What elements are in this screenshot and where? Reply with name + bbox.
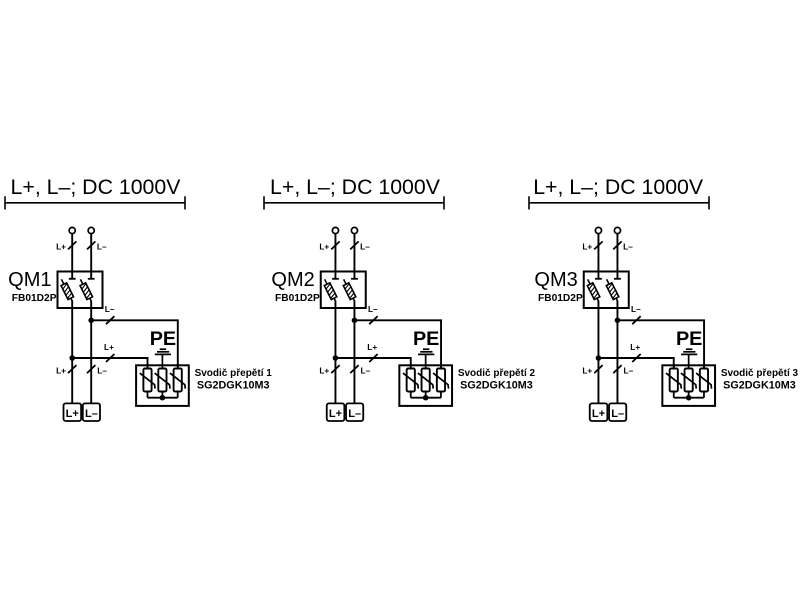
wire L&#8722; main drop circuit 2 bbox=[353, 301, 355, 404]
terminal circle L&#8722; input circuit 3 bbox=[614, 227, 620, 233]
disconnect slash L+ branch circuit 1 bbox=[106, 354, 114, 362]
wire L&#8722; branch circuit 1 bbox=[91, 320, 178, 369]
surge arrester box circuit 1 bbox=[136, 365, 189, 406]
fuse-switch QM3 pole 2 bbox=[606, 279, 621, 301]
disconnect slash L&#8722; output circuit 3 bbox=[613, 365, 621, 373]
node L&#8722; junction circuit 2 bbox=[352, 318, 358, 324]
varistor 1 circuit 1 bbox=[140, 369, 155, 398]
terminal circle L&#8722; input circuit 2 bbox=[351, 227, 357, 233]
svg-text:FB01D2P: FB01D2P bbox=[12, 293, 57, 304]
svg-text:QM1: QM1 bbox=[8, 269, 51, 291]
terminal box L+ output circuit 3 bbox=[590, 403, 608, 421]
wire ground bus circuit 1 bbox=[148, 397, 178, 399]
wire L+ input drop circuit 1 bbox=[71, 234, 73, 279]
svg-text:L+: L+ bbox=[104, 342, 114, 352]
ground PE circuit 3 bbox=[681, 349, 697, 369]
bus bracket circuit 1 bbox=[5, 196, 185, 209]
wire L+ branch circuit 2 bbox=[335, 358, 410, 369]
svg-text:L+: L+ bbox=[66, 408, 79, 420]
disconnect slash L&#8722; output circuit 2 bbox=[350, 365, 358, 373]
node ground bus circuit 3 bbox=[686, 395, 692, 401]
varistor 3 circuit 1 bbox=[170, 369, 185, 398]
bus bracket circuit 2 bbox=[264, 196, 444, 209]
svg-text:L+: L+ bbox=[367, 342, 377, 352]
disconnect slash L&#8722; branch circuit 2 bbox=[369, 316, 377, 324]
wire L&#8722; input drop circuit 2 bbox=[353, 234, 355, 279]
wire ground bus circuit 2 bbox=[411, 397, 441, 399]
varistor 1 circuit 3 bbox=[666, 369, 681, 398]
svg-text:PE: PE bbox=[676, 328, 702, 350]
terminal circle L&#8722; input circuit 1 bbox=[88, 227, 94, 233]
terminal box L&#8722; output circuit 1 bbox=[83, 403, 100, 421]
fuse-switch QM3 pole 1 bbox=[587, 279, 602, 301]
svg-text:SG2DGK10M3: SG2DGK10M3 bbox=[723, 379, 796, 391]
svg-text:L+: L+ bbox=[582, 242, 592, 252]
svg-text:L–: L– bbox=[97, 365, 107, 375]
switch-fuse box QM2 bbox=[321, 272, 366, 309]
surge arrester box circuit 2 bbox=[399, 365, 452, 406]
wire L+ input drop circuit 3 bbox=[597, 234, 599, 279]
svg-text:L+: L+ bbox=[56, 242, 66, 252]
svg-text:PE: PE bbox=[413, 328, 439, 350]
disconnect slash L&#8722; branch circuit 3 bbox=[632, 316, 640, 324]
ground PE circuit 1 bbox=[155, 349, 171, 369]
svg-text:L+, L–; DC 1000V: L+, L–; DC 1000V bbox=[11, 175, 182, 199]
wire L&#8722; main drop circuit 3 bbox=[616, 301, 618, 404]
disconnect slash L&#8722; output circuit 1 bbox=[87, 365, 95, 373]
varistor 1 circuit 2 bbox=[403, 369, 418, 398]
disconnect slash L+ branch circuit 2 bbox=[369, 354, 377, 362]
svg-text:L–: L– bbox=[360, 242, 370, 252]
node ground bus circuit 1 bbox=[160, 395, 166, 401]
terminal circle L+ input circuit 3 bbox=[595, 227, 601, 233]
terminal box L+ output circuit 2 bbox=[327, 403, 345, 421]
disconnect slash L+ input circuit 3 bbox=[594, 241, 602, 249]
svg-text:L–: L– bbox=[85, 408, 98, 420]
wire L+ input drop circuit 2 bbox=[334, 234, 336, 279]
svg-text:L–: L– bbox=[105, 304, 115, 314]
disconnect slash L+ output circuit 2 bbox=[331, 365, 339, 373]
svg-text:L+: L+ bbox=[592, 408, 605, 420]
wire L&#8722; branch circuit 2 bbox=[354, 320, 441, 369]
svg-text:L–: L– bbox=[361, 365, 371, 375]
svg-text:Svodič přepětí 1: Svodič přepětí 1 bbox=[195, 368, 273, 379]
disconnect slash L+ branch circuit 3 bbox=[632, 354, 640, 362]
terminal box L&#8722; output circuit 3 bbox=[609, 403, 626, 421]
node L+ junction circuit 1 bbox=[69, 355, 75, 361]
varistor 2 circuit 1 bbox=[155, 369, 170, 398]
node L+ junction circuit 2 bbox=[333, 355, 339, 361]
svg-text:SG2DGK10M3: SG2DGK10M3 bbox=[197, 379, 270, 391]
svg-text:L–: L– bbox=[97, 242, 107, 252]
fuse-switch QM2 pole 2 bbox=[343, 279, 358, 301]
fuse-switch QM2 pole 1 bbox=[324, 279, 339, 301]
svg-text:Svodič přepětí 3: Svodič přepětí 3 bbox=[721, 368, 799, 379]
disconnect slash L&#8722; input circuit 2 bbox=[350, 241, 358, 249]
ground PE circuit 2 bbox=[418, 349, 434, 369]
svg-text:L+: L+ bbox=[630, 342, 640, 352]
svg-text:QM3: QM3 bbox=[534, 269, 577, 291]
terminal box L+ output circuit 1 bbox=[64, 403, 82, 421]
svg-text:L–: L– bbox=[631, 304, 641, 314]
varistor top stub 1 circuit 2 bbox=[410, 364, 412, 369]
svg-text:L–: L– bbox=[611, 408, 624, 420]
varistor top stub 3 circuit 1 bbox=[177, 364, 179, 369]
wire L&#8722; input drop circuit 3 bbox=[616, 234, 618, 279]
disconnect slash L+ input circuit 2 bbox=[331, 241, 339, 249]
svg-text:Svodič přepětí 2: Svodič přepětí 2 bbox=[458, 368, 536, 379]
wire L+ branch circuit 1 bbox=[72, 358, 147, 369]
fuse-switch QM1 pole 2 bbox=[80, 279, 95, 301]
svg-text:QM2: QM2 bbox=[271, 269, 314, 291]
surge arrester box circuit 3 bbox=[662, 365, 715, 406]
varistor 3 circuit 2 bbox=[433, 369, 448, 398]
node ground bus circuit 2 bbox=[423, 395, 429, 401]
wire L+ main drop circuit 1 bbox=[71, 301, 73, 404]
disconnect slash L+ output circuit 1 bbox=[68, 365, 76, 373]
svg-text:L+: L+ bbox=[319, 242, 329, 252]
varistor 2 circuit 3 bbox=[681, 369, 696, 398]
fuse-switch QM1 pole 1 bbox=[61, 279, 76, 301]
terminal circle L+ input circuit 1 bbox=[69, 227, 75, 233]
node L&#8722; junction circuit 1 bbox=[88, 318, 94, 324]
terminal circle L+ input circuit 2 bbox=[332, 227, 338, 233]
switch-fuse box QM3 bbox=[584, 272, 629, 309]
varistor top stub 1 circuit 3 bbox=[673, 364, 675, 369]
disconnect slash L+ input circuit 1 bbox=[68, 241, 76, 249]
svg-text:L+, L–; DC 1000V: L+, L–; DC 1000V bbox=[270, 175, 441, 199]
svg-text:PE: PE bbox=[150, 328, 176, 350]
node L&#8722; junction circuit 3 bbox=[615, 318, 621, 324]
svg-text:L–: L– bbox=[624, 365, 634, 375]
bus bracket circuit 3 bbox=[529, 196, 709, 209]
svg-text:FB01D2P: FB01D2P bbox=[538, 293, 583, 304]
node L+ junction circuit 3 bbox=[596, 355, 602, 361]
disconnect slash L&#8722; input circuit 3 bbox=[613, 241, 621, 249]
svg-text:L–: L– bbox=[348, 408, 361, 420]
disconnect slash L+ output circuit 3 bbox=[594, 365, 602, 373]
switch-fuse box QM1 bbox=[58, 272, 103, 309]
wire L&#8722; branch circuit 3 bbox=[617, 320, 704, 369]
wire L&#8722; main drop circuit 1 bbox=[90, 301, 92, 404]
varistor top stub 3 circuit 3 bbox=[703, 364, 705, 369]
svg-text:FB01D2P: FB01D2P bbox=[275, 293, 320, 304]
varistor 2 circuit 2 bbox=[418, 369, 433, 398]
svg-text:L+, L–; DC 1000V: L+, L–; DC 1000V bbox=[533, 175, 704, 199]
svg-text:L+: L+ bbox=[329, 408, 342, 420]
wire L+ branch circuit 3 bbox=[598, 358, 673, 369]
svg-text:SG2DGK10M3: SG2DGK10M3 bbox=[460, 379, 533, 391]
wire L+ main drop circuit 2 bbox=[334, 301, 336, 404]
disconnect slash L&#8722; input circuit 1 bbox=[87, 241, 95, 249]
wire ground bus circuit 3 bbox=[674, 397, 704, 399]
wire L+ main drop circuit 3 bbox=[597, 301, 599, 404]
svg-text:L+: L+ bbox=[582, 365, 592, 375]
svg-text:L–: L– bbox=[368, 304, 378, 314]
svg-text:L–: L– bbox=[623, 242, 633, 252]
svg-text:L+: L+ bbox=[319, 365, 329, 375]
disconnect slash L&#8722; branch circuit 1 bbox=[106, 316, 114, 324]
terminal box L&#8722; output circuit 2 bbox=[346, 403, 363, 421]
varistor 3 circuit 3 bbox=[696, 369, 711, 398]
wire L&#8722; input drop circuit 1 bbox=[90, 234, 92, 279]
svg-text:L+: L+ bbox=[56, 365, 66, 375]
varistor top stub 3 circuit 2 bbox=[440, 364, 442, 369]
varistor top stub 1 circuit 1 bbox=[147, 364, 149, 369]
